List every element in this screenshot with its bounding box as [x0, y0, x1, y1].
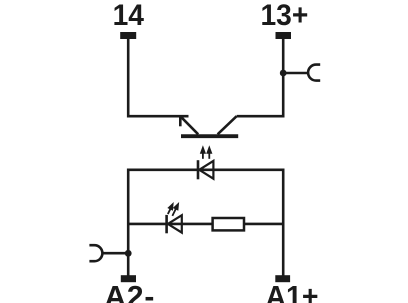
- resistor R1: [213, 218, 244, 230]
- wire from terminal 13+ down and left to collector: [237, 35, 284, 116]
- phototransistor Q1 emitter lead: [180, 116, 198, 134]
- svg-text:14: 14: [113, 0, 145, 32]
- wire from left plug contact to junction: [102, 252, 128, 255]
- wire from terminal 14 down and right to emitter: [128, 35, 188, 116]
- middle rung wire with LED and resistor: [128, 223, 283, 226]
- junction node on 13+ wire: [280, 70, 287, 77]
- svg-text:13+: 13+: [260, 0, 308, 32]
- indicator LED D2 triangle: [168, 215, 182, 232]
- optocoupler LED D1 triangle: [199, 161, 213, 179]
- phototransistor Q1 base bar: [181, 134, 238, 138]
- optocoupler light arrow 2 (up, toward transistor): [206, 145, 212, 159]
- indicator LED D2 emission arrow 2: [170, 201, 182, 218]
- phototransistor Q1 collector lead: [218, 116, 237, 134]
- input loop: left side, top side, right side (A2/A1 to LED branch): [128, 170, 283, 276]
- optocoupler LED D1 cathode bar: [197, 160, 200, 179]
- terminal pad 13+: [276, 32, 292, 39]
- terminal pad A2-: [121, 275, 136, 282]
- indicator LED D2 cathode bar: [165, 215, 168, 233]
- plug contact symbol left (A2 input): [89, 245, 102, 261]
- wire from junction to right plug contact: [283, 72, 308, 75]
- optocoupler light arrow 1 (up, toward transistor): [200, 145, 206, 159]
- svg-text:A2-: A2-: [104, 281, 155, 303]
- svg-text:A1+: A1+: [265, 281, 318, 303]
- terminal pad A1+: [275, 275, 290, 282]
- terminal pad 14: [120, 32, 136, 39]
- indicator LED D2 emission arrow 1: [165, 201, 176, 216]
- junction node on A2- wire: [125, 250, 132, 257]
- plug contact symbol right (13 output): [308, 65, 320, 81]
- phototransistor Q1 emitter arrowhead: [179, 116, 182, 126]
